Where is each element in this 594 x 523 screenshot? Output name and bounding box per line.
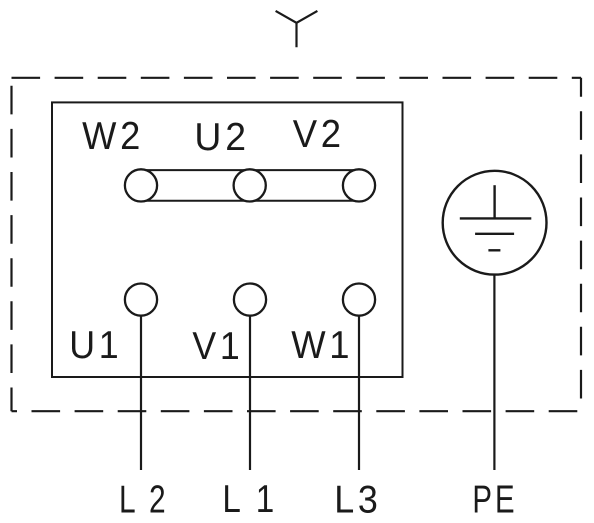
svg-text:L3: L3 [334, 478, 381, 521]
wire L3 from terminal W1 [358, 316, 360, 470]
bridge bar bottom line [141, 200, 359, 202]
svg-text:V2: V2 [293, 113, 345, 156]
protective earth terminal PE circle [443, 171, 547, 275]
earth symbol vertical stroke [493, 185, 495, 219]
dashed enclosure top edge [12, 77, 582, 79]
svg-text:L 1: L 1 [222, 478, 277, 521]
earth symbol short bar [488, 249, 500, 251]
terminal W2 [125, 169, 157, 201]
terminal U2 [234, 169, 266, 201]
bridge bar top line [141, 169, 359, 171]
svg-text:PE: PE [472, 478, 517, 521]
svg-text:U2: U2 [194, 116, 250, 159]
wire L2 from terminal U1 [140, 316, 142, 470]
dashed enclosure left edge [10, 78, 12, 411]
svg-text:W1: W1 [291, 324, 353, 367]
terminal W1 [343, 284, 375, 316]
terminal board box [52, 102, 403, 377]
svg-text:L 2: L 2 [119, 479, 169, 522]
terminal U1 [125, 284, 157, 316]
terminal V1 [234, 284, 266, 316]
wire PE [493, 275, 495, 470]
dashed enclosure right edge [580, 78, 582, 411]
svg-text:V1: V1 [192, 325, 243, 368]
earth symbol middle bar [475, 233, 514, 235]
svg-text:W2: W2 [82, 115, 144, 158]
dashed enclosure bottom edge [12, 410, 582, 412]
svg-text:U1: U1 [69, 324, 122, 367]
earth symbol long bar [460, 217, 532, 219]
wire L1 from terminal V1 [249, 316, 251, 470]
star (wye) connection symbol [276, 11, 318, 47]
terminal V2 [343, 169, 375, 201]
